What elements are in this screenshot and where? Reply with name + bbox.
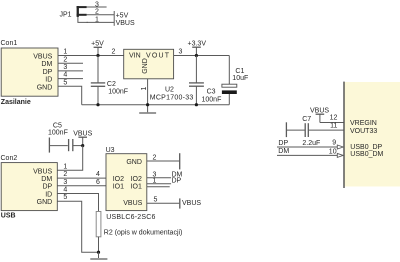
svg-text:U2: U2 <box>165 87 174 94</box>
svg-text:+3.3V: +3.3V <box>188 40 207 47</box>
svg-text:100nF: 100nF <box>202 96 222 103</box>
svg-text:IO1: IO1 <box>113 184 124 191</box>
svg-text:DM: DM <box>278 148 289 155</box>
svg-text:VOUT33: VOUT33 <box>350 128 377 135</box>
svg-text:2.2uF: 2.2uF <box>302 140 320 147</box>
svg-text:1: 1 <box>141 87 148 91</box>
svg-text:+5V: +5V <box>91 40 104 47</box>
svg-text:USB0_DP: USB0_DP <box>350 144 382 151</box>
svg-text:Zasilanie: Zasilanie <box>1 99 31 106</box>
svg-text:3: 3 <box>179 49 183 56</box>
svg-text:Con2: Con2 <box>1 155 18 162</box>
svg-text:1: 1 <box>153 178 157 185</box>
svg-text:C2: C2 <box>107 81 116 88</box>
svg-text:IO2: IO2 <box>113 176 124 183</box>
svg-text:DP: DP <box>42 184 52 191</box>
svg-text:9: 9 <box>332 140 336 147</box>
svg-text:5: 5 <box>154 196 158 203</box>
svg-text:100nF: 100nF <box>108 89 128 96</box>
svg-text:10uF: 10uF <box>232 75 248 82</box>
svg-text:ID: ID <box>45 77 52 84</box>
svg-text:JP1: JP1 <box>59 12 71 19</box>
svg-text:DP: DP <box>172 178 182 185</box>
svg-text:4: 4 <box>63 187 67 194</box>
svg-text:VBUS: VBUS <box>182 200 201 207</box>
svg-text:GND: GND <box>126 159 142 166</box>
svg-text:2: 2 <box>63 171 67 178</box>
svg-text:10: 10 <box>329 148 337 155</box>
svg-text:MCP1700-33: MCP1700-33 <box>150 94 194 101</box>
svg-text:1: 1 <box>63 49 67 56</box>
svg-text:DM: DM <box>41 61 52 68</box>
svg-text:IO1: IO1 <box>131 184 142 191</box>
svg-text:U3: U3 <box>106 147 115 154</box>
svg-text:2: 2 <box>63 56 67 63</box>
svg-text:GND: GND <box>37 199 53 206</box>
svg-text:GND: GND <box>142 58 149 74</box>
svg-text:VBUS: VBUS <box>33 54 52 61</box>
svg-text:C3: C3 <box>207 89 216 96</box>
svg-text:VREGIN: VREGIN <box>350 120 377 127</box>
svg-text:+5V: +5V <box>116 13 129 20</box>
svg-text:R2 (opis w dokumentacji): R2 (opis w dokumentacji) <box>104 229 183 236</box>
svg-text:IO2: IO2 <box>131 176 142 183</box>
svg-text:USBLC6-2SC6: USBLC6-2SC6 <box>106 214 155 221</box>
svg-text:Con1: Con1 <box>1 40 18 47</box>
svg-text:4: 4 <box>96 171 100 178</box>
svg-text:5: 5 <box>63 79 67 86</box>
svg-text:3: 3 <box>95 1 99 8</box>
svg-text:11: 11 <box>330 122 337 129</box>
svg-text:1: 1 <box>63 163 67 170</box>
svg-text:DP: DP <box>278 140 288 147</box>
svg-text:VOUT: VOUT <box>146 52 170 59</box>
svg-text:GND: GND <box>37 84 53 91</box>
svg-text:DP: DP <box>43 69 53 76</box>
svg-text:VBUS: VBUS <box>123 200 142 207</box>
svg-text:VBUS: VBUS <box>33 168 52 175</box>
svg-text:3: 3 <box>63 64 67 71</box>
svg-text:USB: USB <box>1 212 16 219</box>
svg-text:12: 12 <box>330 115 338 122</box>
svg-text:VBUS: VBUS <box>116 20 135 27</box>
svg-text:6: 6 <box>96 179 100 186</box>
svg-text:1: 1 <box>95 16 99 23</box>
svg-text:VBUS: VBUS <box>310 107 329 114</box>
svg-text:C7: C7 <box>302 116 311 123</box>
svg-text:3: 3 <box>63 179 67 186</box>
svg-text:2: 2 <box>112 49 116 56</box>
svg-text:ID: ID <box>45 191 52 198</box>
svg-text:2: 2 <box>153 154 157 161</box>
svg-text:DM: DM <box>41 176 52 183</box>
svg-text:4: 4 <box>63 72 67 79</box>
svg-text:5: 5 <box>63 194 67 201</box>
svg-text:USB0_DM: USB0_DM <box>350 151 383 158</box>
svg-text:2: 2 <box>95 9 99 16</box>
svg-text:VIN: VIN <box>129 52 141 59</box>
svg-text:VBUS: VBUS <box>73 130 92 137</box>
svg-text:100nF: 100nF <box>48 130 68 137</box>
